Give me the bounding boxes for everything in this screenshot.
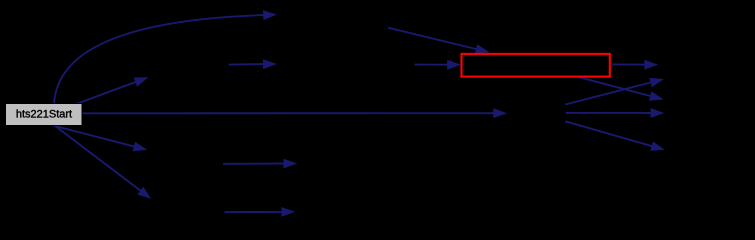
svg-text:hts221Start: hts221Start: [16, 108, 72, 120]
